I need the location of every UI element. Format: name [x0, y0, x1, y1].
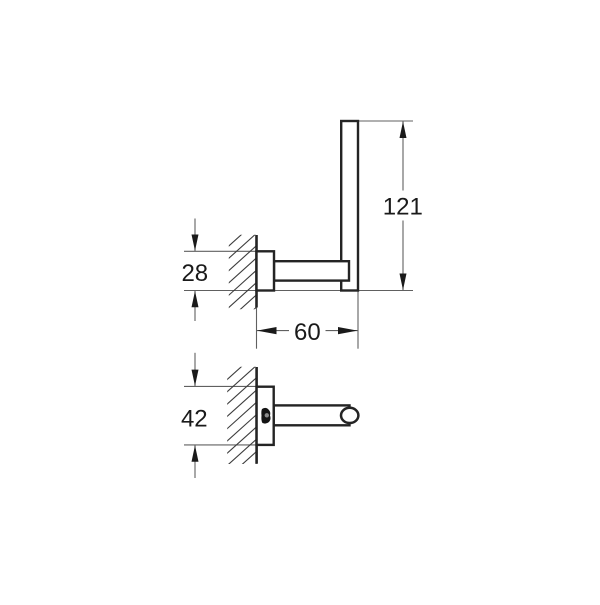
extension line top of 28 (y=251.3)	[184, 250, 256, 252]
extension line bottom of 42 (y=444.9)	[184, 444, 257, 446]
arrowhead 28 top (down, outside)	[192, 235, 199, 251]
arrowhead 121 bottom (down)	[400, 274, 407, 291]
wall hatching (bottom view)	[220, 353, 257, 497]
extension line top of 121 (y=121)	[358, 120, 413, 122]
wall plate (top view)	[257, 251, 275, 290]
rod end ellipse	[341, 408, 358, 423]
vertical bar (holder upright)	[341, 121, 358, 291]
wall line (bottom view)	[255, 367, 258, 464]
wall line (top view)	[255, 235, 258, 308]
arrowhead 42 bottom (up, outside)	[192, 445, 199, 461]
extension line left of 60 (x=256.5)	[256, 296, 258, 349]
arrowhead 42 top (down, outside)	[192, 370, 199, 386]
rod (bottom view)	[274, 405, 350, 425]
svg-text:42: 42	[181, 406, 208, 433]
extension line right of 60 (x=358)	[357, 291, 359, 349]
arrowhead 60 right	[338, 327, 358, 334]
svg-text:60: 60	[294, 319, 321, 346]
dimension line 60 (y=330.6)	[257, 330, 290, 332]
extension line top of 42 (y=386.4)	[184, 385, 257, 387]
arrowhead 60 left	[257, 327, 277, 334]
dimension line 28 (x=195)	[194, 219, 196, 252]
dimension line 121 (x=403)	[402, 121, 404, 191]
horizontal arm	[274, 261, 349, 280]
wall plate (bottom view)	[257, 387, 274, 445]
wall hatching (top view)	[220, 221, 257, 352]
extension line bottom of 121 / 28 (y=290.5)	[184, 290, 413, 292]
svg-text:121: 121	[383, 194, 423, 221]
arrowhead 28 bottom (up, outside)	[192, 291, 199, 307]
arrowhead 121 top (up)	[400, 122, 407, 139]
dimension line 42 (x=195)	[194, 353, 196, 387]
screw detail blob	[261, 408, 270, 424]
svg-text:28: 28	[181, 260, 208, 287]
